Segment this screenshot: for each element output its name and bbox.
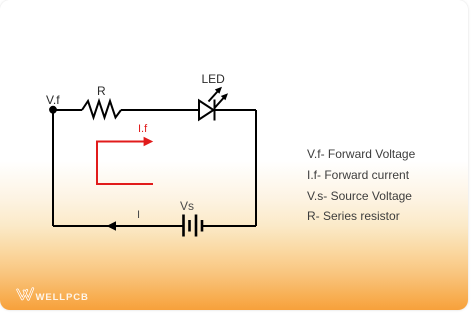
svg-text:WELLPCB: WELLPCB (36, 292, 89, 303)
